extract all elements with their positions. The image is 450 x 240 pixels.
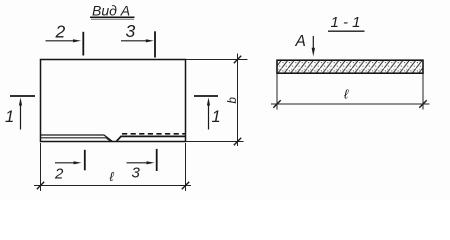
dim tick top <box>234 56 241 63</box>
dimension line b (vertical) <box>237 54 239 147</box>
svg-text:Вид А: Вид А <box>92 3 130 19</box>
dim tick left <box>273 100 280 107</box>
slab cross-section (hatched) <box>277 60 423 73</box>
dim tick right <box>182 182 189 189</box>
section mark 2 (top) tick <box>82 32 84 56</box>
section mark 2 (bottom) tick <box>84 150 86 171</box>
dim tick left <box>37 182 44 189</box>
extension line (sheet edge prolonged) <box>186 141 244 143</box>
extension line bottom-right <box>185 143 187 191</box>
section mark 1 (left) arrow <box>20 103 22 130</box>
dimension line l (bottom) <box>34 185 191 187</box>
lap joint right sheet edge <box>117 136 186 141</box>
svg-text:3: 3 <box>126 21 136 41</box>
svg-text:1 - 1: 1 - 1 <box>331 14 361 31</box>
hidden edge (dashed) <box>122 133 186 135</box>
svg-text:3: 3 <box>132 165 141 182</box>
svg-text:2: 2 <box>54 166 64 183</box>
svg-text:ℓ: ℓ <box>110 169 115 184</box>
svg-text:ℓ: ℓ <box>344 87 349 102</box>
section mark 1 (right) arrow <box>208 103 210 130</box>
extension line section-left <box>276 74 278 110</box>
title underline <box>328 30 365 32</box>
section mark 3 (top) arrow <box>121 40 147 42</box>
section mark 1 (right) tick <box>194 95 218 97</box>
svg-text:А: А <box>295 33 306 50</box>
lap joint left sheet inner line <box>41 138 111 141</box>
title underline ghost <box>91 18 134 20</box>
svg-text:1: 1 <box>5 108 14 126</box>
view direction arrow A <box>312 36 314 50</box>
svg-text:2: 2 <box>55 22 66 42</box>
section mark 2 (bottom) arrow <box>55 162 76 164</box>
section mark 3 (top) tick <box>154 31 156 57</box>
dimension line l (section) <box>271 103 430 105</box>
slab outline (plan view) <box>41 60 186 142</box>
section mark 3 (bottom) tick <box>156 149 158 171</box>
section mark 3 (bottom) arrow <box>127 162 150 164</box>
section mark 2 (top) arrow <box>46 40 75 42</box>
title underline <box>90 16 135 18</box>
extension line section-right <box>422 74 424 110</box>
dim tick right <box>419 100 426 107</box>
lap joint left sheet top edge <box>41 135 113 141</box>
extension line top-right <box>186 59 248 61</box>
section mark 1 (left) tick <box>10 95 35 97</box>
svg-text:1: 1 <box>212 108 221 126</box>
svg-text:b: b <box>227 97 239 104</box>
dim tick bottom <box>234 138 241 145</box>
extension line bottom-left <box>40 143 42 191</box>
